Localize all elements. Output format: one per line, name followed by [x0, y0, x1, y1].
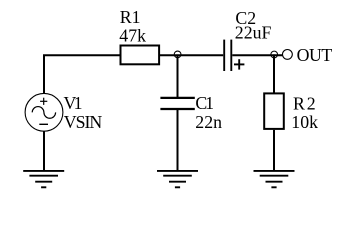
svg-text:C1: C1 — [195, 93, 214, 113]
svg-text:V1: V1 — [64, 93, 83, 113]
svg-text:OUT: OUT — [297, 45, 333, 65]
svg-text:R2: R2 — [293, 93, 316, 113]
svg-text:22uF: 22uF — [235, 23, 272, 43]
svg-text:22n: 22n — [195, 112, 222, 132]
svg-text:47k: 47k — [119, 26, 146, 46]
svg-text:R1: R1 — [120, 7, 141, 27]
svg-text:10k: 10k — [291, 112, 318, 132]
svg-text:VSIN: VSIN — [64, 112, 103, 132]
